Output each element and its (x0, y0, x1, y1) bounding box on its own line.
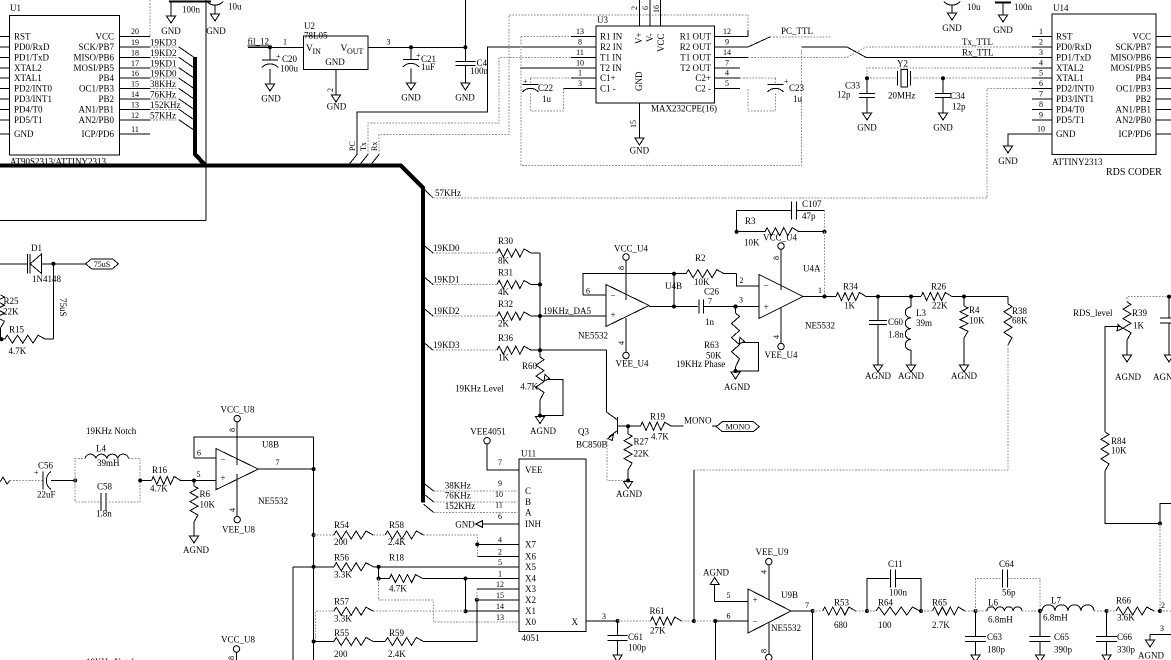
capacitor C58 1.8n (75, 479, 142, 519)
U1 pin 16 net 19KD0 wire and bus entry (120, 69, 194, 89)
svg-text:C2+: C2+ (695, 73, 711, 83)
power VEE_U8 (U8B) (222, 474, 255, 535)
resistor R54 200 (312, 520, 374, 547)
analog ground AGND (C60) (865, 365, 891, 381)
svg-text:R2 OUT: R2 OUT (680, 42, 712, 52)
svg-text:57KHz: 57KHz (150, 110, 176, 120)
svg-text:C60: C60 (888, 317, 904, 327)
inductor L7 6.8mH (1040, 596, 1107, 623)
U9B output wire (791, 601, 823, 660)
svg-text:8: 8 (760, 649, 769, 653)
svg-text:GND: GND (327, 102, 347, 112)
wire U3 R1 IN loop to Tx_TTL crossover (521, 37, 802, 166)
svg-text:1: 1 (283, 38, 287, 47)
svg-text:Tx_TTL: Tx_TTL (962, 37, 993, 47)
U2 GND pin 2 wire (326, 70, 336, 96)
svg-text:14: 14 (496, 602, 504, 611)
svg-text:U2: U2 (304, 21, 315, 31)
svg-text:1K: 1K (844, 301, 856, 311)
svg-text:4: 4 (725, 69, 729, 78)
svg-text:2.7K: 2.7K (932, 620, 950, 630)
filter title 19KHz Notch (second) (86, 657, 137, 660)
svg-text:12p: 12p (952, 102, 966, 112)
svg-text:5: 5 (498, 558, 502, 567)
ground symbol GND (C34) (933, 113, 953, 133)
svg-text:R25: R25 (4, 296, 20, 306)
resistor R31 4K (497, 268, 540, 298)
capacitor C107 47p (737, 199, 825, 232)
svg-text:R34: R34 (843, 282, 859, 292)
wire U9B inverting input (713, 612, 748, 660)
svg-text:VCC: VCC (656, 33, 666, 52)
svg-text:R1 IN: R1 IN (600, 32, 623, 42)
svg-text:9: 9 (498, 479, 502, 488)
svg-text:12: 12 (131, 111, 139, 120)
svg-text:22K: 22K (932, 301, 948, 311)
svg-text:100n: 100n (889, 588, 908, 598)
svg-text:R6: R6 (200, 489, 211, 499)
svg-text:+: + (523, 77, 528, 86)
svg-text:XTAL2: XTAL2 (14, 63, 42, 73)
svg-text:R26: R26 (931, 282, 947, 292)
svg-text:PD0/RxD: PD0/RxD (14, 42, 50, 52)
power VEE_U4 (U4B) (616, 318, 649, 369)
svg-text:5: 5 (197, 470, 201, 479)
wire 19KHz_DA5 to Q3 collector (540, 350, 607, 412)
svg-text:AN1/PB1: AN1/PB1 (78, 104, 114, 114)
svg-text:11: 11 (576, 48, 584, 57)
svg-text:VCC_U4: VCC_U4 (614, 244, 649, 254)
svg-text:4051: 4051 (522, 633, 540, 643)
svg-text:PD0/RxD: PD0/RxD (1056, 42, 1092, 52)
svg-text:+: + (220, 473, 225, 483)
U3 T2 IN stub (520, 67, 596, 69)
svg-text:200: 200 (334, 649, 348, 659)
op-amp U9B NE5532 (748, 589, 801, 633)
svg-text:AGND: AGND (951, 371, 977, 381)
resistor R26 22K (911, 282, 964, 311)
svg-text:680: 680 (834, 620, 848, 630)
svg-text:2K: 2K (498, 319, 510, 329)
node 38KHz (bus entry) (424, 481, 520, 492)
svg-text:GND: GND (325, 57, 345, 67)
svg-text:C34: C34 (950, 91, 966, 101)
svg-text:1: 1 (498, 570, 502, 579)
svg-text:AN2/PB0: AN2/PB0 (78, 115, 114, 125)
svg-text:C: C (525, 486, 531, 496)
svg-text:19: 19 (131, 38, 139, 47)
analog ground AGND (L3) (898, 365, 924, 381)
svg-text:10: 10 (1037, 125, 1045, 134)
svg-text:GND: GND (998, 156, 1018, 166)
U3 GND pin 15 wire (629, 103, 639, 138)
svg-text:4.7K: 4.7K (9, 346, 27, 356)
ground symbol GND (U14 10u) (942, 13, 962, 33)
svg-text:C65: C65 (1054, 632, 1070, 642)
svg-text:AGND: AGND (1115, 372, 1141, 382)
ground symbol GND (U14) (998, 146, 1018, 166)
svg-text:AGND: AGND (616, 489, 642, 499)
resistor R19 4.7K (628, 412, 683, 442)
svg-text:C107: C107 (802, 199, 822, 209)
wire ladder column below (313, 642, 315, 660)
svg-text:NE5532: NE5532 (805, 321, 835, 331)
U1 left pin wires (0, 37, 10, 135)
svg-text:X4: X4 (525, 574, 536, 584)
potentiometer R39 1K (RDS_level) (1073, 295, 1171, 355)
svg-text:SCK/PB7: SCK/PB7 (78, 42, 114, 52)
svg-text:GND: GND (401, 93, 421, 103)
svg-text:4: 4 (772, 335, 781, 339)
capacitor C11 100n (R64 feedback) (865, 559, 921, 613)
svg-text:GND: GND (261, 94, 281, 104)
power VCC_U4 (U4B) (614, 244, 649, 301)
U1 pin 14 net 76KHz wire and bus entry (120, 90, 194, 110)
svg-text:OC1/PB3: OC1/PB3 (1116, 84, 1152, 94)
op-amp U4B NE5532 (578, 281, 682, 341)
U9B non-inverting input to AGND (715, 585, 748, 602)
wire R58 to X7 X6 (475, 542, 519, 556)
svg-text:Tx: Tx (359, 142, 368, 151)
svg-text:U11: U11 (521, 449, 536, 459)
wire R34 node to L3 (878, 296, 911, 298)
svg-text:C66: C66 (1117, 632, 1133, 642)
svg-text:14: 14 (131, 90, 139, 99)
ground symbol GND (C4) (455, 83, 475, 103)
svg-text:5: 5 (1039, 69, 1043, 78)
ground symbol GND (10u cap) (206, 14, 226, 36)
svg-text:R2: R2 (695, 253, 706, 263)
svg-text:152KHz: 152KHz (445, 501, 476, 511)
svg-text:R32: R32 (498, 299, 513, 309)
capacitor C20 100u (262, 45, 299, 84)
svg-text:11: 11 (131, 125, 139, 134)
svg-text:U4A: U4A (803, 264, 821, 274)
U4A input wires (734, 274, 760, 309)
svg-text:MISO/PB6: MISO/PB6 (73, 52, 114, 62)
svg-text:X0: X0 (525, 617, 536, 627)
capacitor 100n (U1 supply decoupling) (169, 2, 211, 17)
svg-text:20: 20 (131, 27, 139, 36)
svg-text:L7: L7 (1051, 596, 1061, 606)
wire 75uS vertical (51, 262, 68, 339)
capacitor C64 56p (across L6) (976, 559, 1041, 611)
svg-text:76KHz: 76KHz (150, 90, 176, 100)
U14 right pin stubs (1156, 37, 1171, 135)
svg-text:R31: R31 (498, 268, 513, 278)
svg-text:22K: 22K (3, 307, 19, 317)
svg-text:100n: 100n (1014, 2, 1033, 12)
wire R84 node to right edge (1158, 504, 1171, 611)
voltage regulator U2 78L05 (304, 21, 369, 70)
svg-text:−: − (611, 291, 616, 301)
svg-text:4.7K: 4.7K (651, 432, 669, 442)
svg-text:PD2/INT0: PD2/INT0 (14, 84, 52, 94)
svg-text:R16: R16 (152, 465, 168, 475)
analog ground AGND (R6) (183, 536, 209, 555)
svg-text:1u: 1u (542, 94, 552, 104)
capacitor C63 180p (965, 609, 1006, 655)
resistor R58 2.4K (373, 520, 477, 556)
power VCC_U4 (U4A) (763, 233, 798, 291)
svg-text:T1 OUT: T1 OUT (680, 52, 711, 62)
svg-text:AGND: AGND (530, 426, 556, 436)
svg-text:19KHz Level: 19KHz Level (455, 384, 504, 394)
svg-text:T2 IN: T2 IN (600, 63, 622, 73)
sheet partition frame (left) (0, 0, 206, 221)
capacitor 10u (U1 supply) (207, 2, 242, 15)
svg-text:75uS: 75uS (58, 298, 68, 317)
svg-text:R36: R36 (498, 333, 514, 343)
node 57KHz (bus to RDS coder) (424, 89, 1032, 198)
svg-text:L6: L6 (988, 597, 998, 607)
svg-text:INH: INH (525, 519, 541, 529)
svg-text:PD3/INT1: PD3/INT1 (1056, 94, 1094, 104)
svg-text:VCC_U4: VCC_U4 (763, 233, 798, 243)
svg-text:13: 13 (576, 27, 584, 36)
svg-text:75uS: 75uS (94, 260, 110, 269)
inductor L3 39m (905, 295, 932, 366)
svg-text:+: + (276, 52, 281, 61)
node 76KHz (bus entry) (424, 491, 520, 502)
svg-text:OUT: OUT (347, 47, 364, 56)
svg-text:V-: V- (645, 33, 655, 42)
svg-text:3: 3 (1160, 624, 1164, 633)
svg-text:6: 6 (197, 449, 201, 458)
svg-text:4.7K: 4.7K (389, 583, 407, 593)
U3 pin numbers right (723, 27, 731, 88)
svg-text:GND: GND (933, 123, 953, 133)
svg-text:6: 6 (498, 512, 502, 521)
U8B output wire (258, 458, 315, 660)
svg-text:4: 4 (617, 341, 626, 345)
svg-text:20MHz: 20MHz (888, 91, 916, 101)
svg-text:4: 4 (760, 570, 769, 574)
svg-text:T1 IN: T1 IN (600, 52, 622, 62)
capacitor 100n (U14 supply) (995, 2, 1033, 15)
svg-text:R84: R84 (1111, 436, 1127, 446)
svg-text:−: − (764, 281, 769, 291)
resistor R66 3.6K (1107, 596, 1171, 623)
svg-text:X: X (572, 617, 579, 627)
resistor R64 100 (867, 597, 923, 630)
svg-text:VEE_U8: VEE_U8 (222, 525, 255, 535)
svg-text:5: 5 (727, 591, 731, 600)
svg-text:R66: R66 (1116, 596, 1132, 606)
svg-text:10K: 10K (744, 238, 760, 248)
svg-text:4: 4 (498, 535, 502, 544)
svg-text:2: 2 (498, 547, 502, 556)
power VCC_U9 (760, 622, 773, 660)
svg-text:12p: 12p (837, 90, 851, 100)
svg-text:PD4/T0: PD4/T0 (14, 104, 43, 114)
resistor R84 10K (1101, 432, 1160, 524)
wire C21 to C4 (411, 46, 465, 48)
wire X1 row (466, 610, 520, 612)
svg-text:C1+: C1+ (600, 73, 616, 83)
svg-text:NE5532: NE5532 (258, 496, 288, 506)
svg-text:C56: C56 (38, 461, 54, 471)
svg-text:8: 8 (1039, 100, 1043, 109)
svg-text:100p: 100p (628, 642, 647, 652)
svg-text:19KD1: 19KD1 (433, 275, 460, 285)
resistor R36 1K (497, 333, 540, 363)
svg-text:GND: GND (14, 129, 34, 139)
svg-text:16: 16 (652, 5, 661, 13)
svg-text:C63: C63 (987, 632, 1003, 642)
svg-text:U14: U14 (1053, 3, 1069, 13)
wire T1 OUT to crossover (715, 56, 847, 58)
svg-text:10: 10 (576, 58, 584, 67)
svg-text:GND: GND (455, 93, 475, 103)
U3 top power pins 2 6 16 (630, 0, 661, 26)
power VCC_U8 (U8A, bottom) (221, 634, 256, 660)
svg-text:8: 8 (227, 656, 236, 660)
svg-text:6.8mH: 6.8mH (988, 615, 1013, 625)
svg-text:GND: GND (630, 146, 650, 156)
U4A feedback riser (823, 230, 827, 297)
svg-text:10K: 10K (694, 277, 710, 287)
node MONO flag (716, 422, 759, 432)
capacitor C33 12p (837, 78, 875, 113)
svg-text:AGND: AGND (183, 545, 209, 555)
svg-text:+: + (611, 310, 616, 320)
svg-text:68K: 68K (1012, 316, 1028, 326)
resistor R4 10K (960, 295, 985, 366)
analog ground AGND (R63) (724, 369, 750, 392)
power VEE_U4 (U4A) (765, 308, 798, 360)
svg-text:C20: C20 (282, 54, 298, 64)
svg-text:ATTINY2313: ATTINY2313 (1052, 157, 1103, 167)
svg-text:ICP/PD6: ICP/PD6 (81, 129, 114, 139)
svg-text:R1 OUT: R1 OUT (680, 32, 712, 42)
svg-text:3: 3 (1039, 48, 1043, 57)
svg-text:C22: C22 (538, 83, 553, 93)
svg-text:390p: 390p (1054, 644, 1073, 654)
svg-text:78L05: 78L05 (304, 31, 328, 41)
wire R59 to X2 X3 (475, 589, 519, 602)
U1 pin 20 VCC wire (120, 0, 151, 37)
ground symbol GND (U2) (327, 95, 347, 112)
op-amp U4A NE5532 (759, 264, 835, 331)
wire Q3 emitter to AGND (607, 439, 628, 481)
svg-text:4: 4 (1039, 58, 1043, 67)
svg-text:+: + (753, 595, 758, 605)
svg-text:RDS CODER: RDS CODER (1106, 167, 1162, 178)
U1 pin 15 net 38KHz wire and bus entry (120, 79, 194, 99)
svg-text:AN1/PB1: AN1/PB1 (1115, 104, 1151, 114)
power VCC_U8 (U8B) (220, 405, 255, 465)
svg-text:R61: R61 (650, 606, 665, 616)
svg-text:15: 15 (629, 120, 638, 128)
svg-text:XTAL2: XTAL2 (1056, 63, 1084, 73)
svg-text:R3: R3 (745, 216, 756, 226)
node fil_12 (248, 37, 304, 48)
svg-text:100n: 100n (182, 5, 201, 15)
svg-text:4K: 4K (498, 287, 510, 297)
U8B input wires (194, 437, 314, 481)
U1 pin 19 net 19KD3 wire and bus entry (120, 38, 194, 58)
svg-text:10K: 10K (969, 316, 985, 326)
node Tx (bus stub) (359, 142, 368, 165)
svg-text:3.3K: 3.3K (334, 613, 352, 623)
resistor R59 2.4K (373, 600, 477, 659)
svg-text:3.6K: 3.6K (1117, 613, 1135, 623)
node 19KD0 (bus entry) (423, 243, 497, 253)
wire PC net to U3 R2 IN (357, 47, 596, 155)
svg-text:19KHz_DA5: 19KHz_DA5 (543, 306, 591, 316)
svg-text:R2 IN: R2 IN (600, 42, 623, 52)
svg-text:76KHz: 76KHz (445, 491, 471, 501)
svg-text:R59: R59 (389, 628, 405, 638)
svg-text:AGND: AGND (1138, 651, 1164, 660)
svg-text:BC850B: BC850B (576, 440, 608, 450)
capacitor C22 1u (523, 77, 597, 111)
svg-text:8K: 8K (498, 256, 510, 266)
svg-text:27K: 27K (650, 626, 666, 636)
svg-text:U9B: U9B (781, 590, 798, 600)
potentiometer R60 4.7K (19KHz Level) (455, 350, 563, 415)
svg-text:GND: GND (857, 123, 877, 133)
wire R18 node to X4 and X1 (464, 577, 520, 614)
svg-text:GND: GND (206, 26, 226, 36)
svg-text:12: 12 (496, 580, 504, 589)
U3 T2 OUT stub (715, 67, 740, 69)
svg-text:19KD3: 19KD3 (433, 340, 460, 350)
op-amp U8B NE5532 (216, 440, 288, 507)
svg-text:fil_12: fil_12 (248, 37, 270, 47)
svg-text:1K: 1K (1133, 321, 1145, 331)
node Rx_TTL (962, 48, 994, 58)
svg-text:R39: R39 (1132, 308, 1148, 318)
node MONO label (684, 416, 716, 427)
svg-text:19KHz Phase: 19KHz Phase (676, 359, 725, 369)
analog ground AGND (C63) (971, 655, 980, 660)
svg-text:200: 200 (334, 537, 348, 547)
node 19KD3 (bus entry) (423, 340, 497, 350)
svg-text:39m: 39m (916, 318, 932, 328)
svg-text:C1 -: C1 - (600, 84, 616, 94)
svg-text:19KHz Notch: 19KHz Notch (86, 426, 137, 436)
svg-text:MAX232CPE(16): MAX232CPE(16) (651, 104, 717, 114)
svg-text:SCK/PB7: SCK/PB7 (1115, 42, 1151, 52)
resistor R3 10K (735, 211, 825, 248)
svg-text:17: 17 (131, 59, 139, 68)
svg-text:IN: IN (313, 47, 322, 56)
svg-text:19KD0: 19KD0 (433, 243, 460, 253)
svg-text:2: 2 (1161, 601, 1165, 610)
resistor R34 1K (836, 282, 878, 311)
svg-text:10u: 10u (967, 2, 981, 12)
svg-text:L4: L4 (96, 444, 106, 454)
svg-text:2.4K: 2.4K (388, 649, 406, 659)
potentiometer R63 50K (19KHz Phase) (676, 305, 759, 372)
svg-text:PB4: PB4 (1135, 73, 1151, 83)
crossover Tx_TTL / Rx_TTL (802, 47, 1033, 57)
svg-text:7: 7 (276, 458, 280, 467)
svg-text:X2: X2 (525, 595, 536, 605)
svg-text:PD5/T1: PD5/T1 (14, 115, 43, 125)
svg-text:C23: C23 (789, 83, 805, 93)
analog ground AGND (R39) (1115, 355, 1141, 382)
capacitor C66 330p (1096, 609, 1135, 655)
svg-text:MISO/PB6: MISO/PB6 (1110, 52, 1151, 62)
svg-text:1N4148: 1N4148 (32, 274, 61, 284)
node 152KHz (bus entry) (424, 501, 520, 512)
wire R56 to X5 (377, 565, 519, 569)
wire MONO summing node (692, 470, 1008, 623)
svg-text:180p: 180p (987, 644, 1006, 654)
